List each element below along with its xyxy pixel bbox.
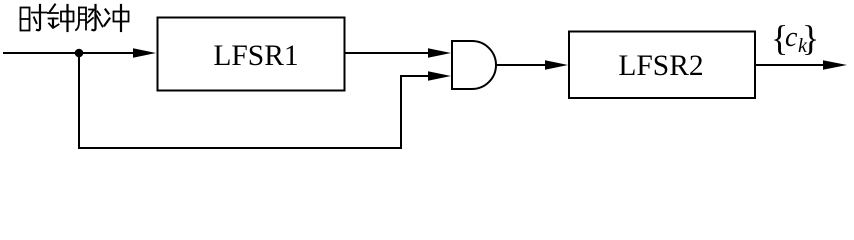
svg-text:c: c bbox=[785, 22, 798, 53]
svg-text:LFSR1: LFSR1 bbox=[213, 40, 298, 72]
svg-text:}: } bbox=[802, 18, 819, 58]
svg-text:LFSR2: LFSR2 bbox=[618, 50, 703, 82]
